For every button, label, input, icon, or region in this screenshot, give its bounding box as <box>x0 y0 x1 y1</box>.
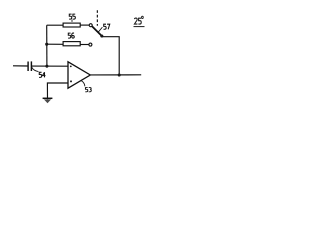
capacitor C54 <box>28 61 31 71</box>
resistor R55 <box>63 23 80 27</box>
switch contact upper (open circle) <box>89 24 92 27</box>
resistor R56 <box>63 42 80 46</box>
label 54 <box>39 72 45 77</box>
wire inverting input to ground <box>47 83 68 99</box>
wire feedback vertical <box>46 25 48 66</box>
label 56 <box>68 33 74 38</box>
wire input to capacitor <box>13 65 28 67</box>
label 57 <box>104 24 110 29</box>
node R56 tap junction <box>45 43 48 46</box>
label 53 <box>85 88 91 92</box>
node output junction <box>118 73 121 76</box>
leader line for label 57 <box>98 27 102 32</box>
underline of figure label <box>134 26 145 28</box>
wire to resistor R55 <box>47 24 64 26</box>
label 55 <box>69 14 75 19</box>
switch S57 actuation dashed line <box>96 10 98 26</box>
wire to resistor R56 <box>47 43 64 45</box>
ground symbol <box>43 98 53 103</box>
leader line for label 54 <box>32 67 39 71</box>
switch pivot node <box>100 34 103 37</box>
wire R55 to switch contact <box>80 24 89 26</box>
node feedback junction on input wire <box>45 65 48 68</box>
op-amp U53 triangle <box>68 62 90 88</box>
wire op-amp output <box>90 74 141 76</box>
figure label 25 with superscript, underlined <box>134 18 141 24</box>
op-amp input mark lower <box>70 80 72 82</box>
wire R56 to switch contact <box>80 44 89 46</box>
switch S57 arm <box>92 26 102 36</box>
leader line for label 53 <box>81 81 85 87</box>
op-amp input mark upper <box>70 66 72 68</box>
switch contact lower (open circle) <box>89 43 92 46</box>
superscript 0 of figure label <box>142 16 144 18</box>
wire switch pivot to right vertical <box>103 37 120 75</box>
leader tick label 55 to resistor <box>71 20 73 22</box>
wire capacitor to op-amp non-inverting input <box>31 65 68 67</box>
